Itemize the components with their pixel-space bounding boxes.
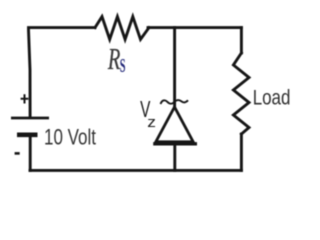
svg-text:10 Volt: 10 Volt xyxy=(44,126,96,151)
zener diode D1 base bar xyxy=(153,142,197,145)
battery minus sign xyxy=(15,152,20,155)
battery B1 bottom plate (negative, short thick) xyxy=(17,133,38,138)
battery B1 top plate (positive, long) xyxy=(11,117,49,120)
wire top-left from battery top to resistor xyxy=(29,28,96,117)
wire right side down to load xyxy=(240,28,243,53)
zener diode D1 triangle xyxy=(156,107,193,142)
wire zener bottom xyxy=(173,145,176,170)
svg-text:z: z xyxy=(147,115,156,130)
svg-text:S: S xyxy=(120,55,126,76)
resistor Load zigzag xyxy=(233,53,249,134)
resistor R1 zigzag xyxy=(95,17,149,40)
wire zener branch top xyxy=(173,28,176,106)
wire top from resistor to top-right corner xyxy=(148,26,241,29)
wire load bottom to bottom-right corner xyxy=(240,134,243,170)
svg-text:R: R xyxy=(107,42,120,76)
battery plus sign xyxy=(21,94,29,103)
svg-text:Load: Load xyxy=(253,87,291,110)
zener diode D1 cathode squiggle xyxy=(161,100,189,104)
wire battery bottom to bottom wire xyxy=(29,137,32,171)
wire bottom xyxy=(30,169,241,172)
